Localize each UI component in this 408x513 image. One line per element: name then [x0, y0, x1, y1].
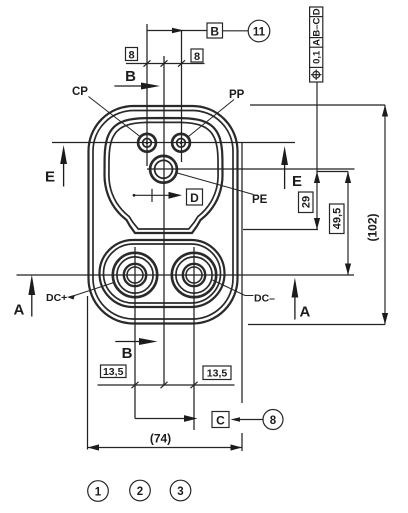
svg-text:B–C: B–C — [312, 17, 323, 36]
svg-text:8: 8 — [270, 415, 277, 427]
boxed dim 29 (rotated) — [299, 192, 314, 213]
connector body inner outline — [93, 111, 233, 320]
thin construction / dimension linework — [17, 24, 386, 451]
boxed dim 13,5 (right) — [203, 366, 231, 380]
svg-text:3: 3 — [177, 486, 183, 498]
svg-text:E: E — [45, 169, 55, 186]
svg-text:2: 2 — [137, 486, 143, 498]
boxed basic dim 8 (left) — [126, 48, 138, 61]
svg-text:49,5: 49,5 — [332, 208, 344, 229]
pin PE — [150, 156, 177, 183]
extension line at opening flat bottom — [243, 229, 318, 231]
svg-text:11: 11 — [253, 27, 266, 39]
pin DC- — [172, 253, 216, 297]
svg-text:B: B — [210, 25, 219, 39]
lower DC opening inner outline — [104, 244, 221, 303]
dimension (74) — [88, 444, 243, 450]
boxed dim 13,5 (left) — [101, 365, 127, 378]
svg-text:B: B — [122, 345, 133, 362]
vertical centre line B-B — [163, 56, 165, 385]
lower DC opening outer outline (stadium) — [100, 240, 225, 307]
svg-text:0,1: 0,1 — [312, 50, 323, 64]
svg-text:PP: PP — [229, 89, 245, 101]
position symbol — [313, 71, 320, 78]
section arrow A left — [28, 275, 35, 317]
svg-text:A: A — [300, 304, 311, 321]
feature control frame (position 0,1 A B-C D) — [310, 7, 323, 82]
svg-text:13,5: 13,5 — [103, 366, 124, 378]
bottom extension line right — [248, 324, 385, 326]
svg-text:A: A — [312, 39, 323, 46]
svg-text:E: E — [292, 173, 302, 190]
dimension (102) line — [382, 105, 388, 325]
upper AC opening outer outline — [105, 118, 223, 233]
centerline through PP — [181, 30, 183, 162]
section arrow E right — [281, 146, 288, 189]
section arrow B top — [114, 83, 160, 90]
svg-text:8: 8 — [128, 49, 134, 61]
pin PP — [172, 134, 190, 152]
section line E-E — [52, 142, 295, 144]
svg-text:(102): (102) — [366, 213, 380, 241]
svg-text:8: 8 — [194, 51, 200, 63]
leader from FCF / dimension 29 line — [299, 82, 321, 230]
tie line of 29 and 49,5 dimensions — [317, 171, 348, 173]
svg-text:B: B — [125, 68, 136, 85]
datum D leader and box — [133, 189, 203, 205]
PE horizontal centre mark — [147, 168, 355, 170]
section arrow A right — [292, 278, 299, 320]
svg-text:DC+: DC+ — [46, 292, 67, 304]
svg-text:A: A — [14, 302, 25, 319]
svg-text:1: 1 — [95, 487, 102, 499]
pin CP — [138, 134, 156, 152]
balloon 2 — [130, 480, 151, 501]
svg-text:D: D — [312, 8, 323, 15]
svg-text:CP: CP — [72, 86, 88, 98]
13,5 / 13,5 chain dimension — [98, 365, 235, 388]
dimension 49,5 line — [330, 172, 352, 276]
section arrow B bottom — [115, 338, 157, 345]
connector body outer outline — [89, 106, 238, 324]
pin DC+ — [113, 253, 157, 297]
section arrow E left — [60, 145, 67, 187]
boxed dim 49,5 (rotated) — [330, 204, 345, 234]
svg-text:DC–: DC– — [254, 293, 275, 305]
datum C leader with balloon 8 — [135, 410, 283, 430]
top extension line — [250, 104, 385, 106]
centerline through DC- — [193, 247, 195, 430]
right extension line for (74) — [241, 143, 243, 403]
svg-text:(74): (74) — [150, 432, 171, 446]
balloon 1 — [88, 481, 109, 502]
svg-text:PE: PE — [252, 194, 268, 206]
svg-text:D: D — [190, 191, 199, 205]
left extension line for (74) — [87, 296, 89, 450]
svg-text:13,5: 13,5 — [207, 368, 228, 380]
upper AC opening inner outline — [109, 122, 218, 229]
centerline through DC+ — [134, 247, 136, 419]
svg-text:C: C — [216, 414, 225, 428]
centerline through CP — [146, 24, 148, 166]
boxed basic dim 8 (right) — [191, 49, 203, 62]
8 / 8 chain dimension line — [126, 48, 205, 67]
section line A-A — [17, 274, 355, 276]
svg-text:29: 29 — [301, 196, 313, 208]
balloon 3 — [170, 480, 191, 501]
top dimension line with datum B leader — [147, 20, 270, 42]
